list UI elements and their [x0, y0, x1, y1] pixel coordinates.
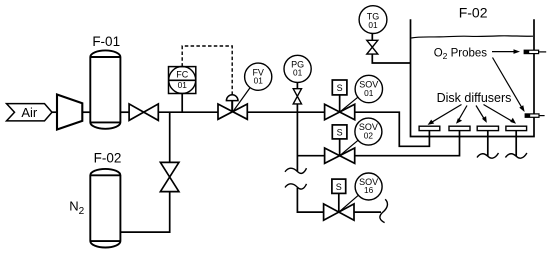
svg-text:F-01: F-01 [92, 34, 120, 49]
svg-text:S: S [337, 128, 343, 138]
svg-text:16: 16 [364, 185, 374, 195]
valve V2 (N2 line) [160, 162, 179, 191]
svg-text:N2: N2 [69, 198, 84, 217]
valve SOV16 [324, 204, 354, 220]
blower B1 [57, 95, 82, 130]
svg-text:01: 01 [254, 75, 264, 85]
svg-text:O2 Probes: O2 Probes [434, 47, 488, 61]
vessel F-01 [90, 34, 120, 129]
wire V4 to tank [372, 54, 410, 63]
valve V3 (gauge isolation) [293, 89, 301, 104]
instrument SOV 16 [340, 173, 383, 212]
off-page connector "Air" [7, 104, 53, 121]
pipe break tilde (D3) [477, 153, 499, 158]
svg-text:F-02: F-02 [94, 151, 122, 166]
valve SOV01 [325, 104, 355, 119]
svg-text:F-02: F-02 [459, 5, 488, 21]
wire header down [296, 112, 298, 171]
arrow to diffuser D4 [484, 105, 517, 124]
svg-text:01: 01 [293, 68, 303, 78]
water surface [411, 36, 533, 38]
valve V1 [129, 104, 158, 121]
wire SOV16 out [354, 211, 381, 213]
pipe break arc (SOV16 out) [380, 199, 388, 222]
wire SOV01 out to diffuser D1 [355, 112, 430, 146]
wire N2 branch down [169, 112, 171, 162]
wire blower to F-01 [82, 111, 90, 113]
controller FC 01 [169, 67, 196, 94]
wire header resume to SOV16 branch [297, 188, 323, 212]
wire valve V2 to vessel F-02 [120, 192, 169, 233]
O2 probe P1 [524, 50, 546, 53]
svg-text:01: 01 [368, 20, 378, 30]
svg-text:01: 01 [364, 88, 374, 98]
wire main line FV to SOV01 [247, 111, 324, 113]
arrow to diffuser D2 [456, 106, 467, 124]
solenoid S1 [332, 80, 347, 112]
wire TG stem [371, 33, 373, 40]
arrow to diffuser D3 [476, 106, 487, 123]
solenoid S2 [332, 125, 347, 156]
instrument SOV 01 [340, 75, 382, 112]
wire F-01 to valve V1 [120, 111, 129, 113]
wire PG stem [296, 104, 298, 112]
vessel F-02 (N2) [90, 151, 121, 248]
svg-text:S: S [336, 182, 342, 192]
O2 probe P2 [525, 114, 544, 117]
wire diffuser D3 stem [487, 131, 489, 156]
instrument SOV 02 [340, 118, 382, 155]
arrow to probe P2 [493, 58, 525, 113]
svg-text:FC: FC [176, 70, 188, 80]
control valve FV [218, 95, 247, 120]
wire FC stem [181, 94, 183, 113]
diffuser D2 [449, 126, 470, 130]
pipe break tilde (header lower) [285, 184, 307, 189]
diffuser D4 [506, 126, 527, 130]
wire SOV02 out to diffuser D2 [355, 131, 460, 156]
svg-text:Air: Air [21, 105, 38, 120]
valve SOV02 [325, 148, 355, 163]
arrow to probe P1 [492, 49, 520, 54]
arrow to diffuser D1 [428, 105, 462, 125]
valve V4 (TG isolation) [367, 40, 378, 54]
svg-text:01: 01 [178, 80, 188, 90]
diffuser D3 [477, 126, 498, 130]
svg-text:S: S [337, 83, 343, 93]
diffuser D1 [419, 126, 440, 130]
instrument FV 01 [233, 63, 272, 111]
wire main line V1 to FV [158, 111, 218, 113]
instrument TG 01 [359, 6, 387, 34]
tank F-02 [411, 5, 535, 137]
wire SOV02 branch [297, 155, 324, 157]
solenoid S3 [332, 179, 346, 212]
svg-text:02: 02 [364, 130, 374, 140]
instrument PG 01 [284, 55, 311, 82]
pipe break tilde (header upper) [285, 168, 307, 173]
wire diffuser D4 stem [515, 131, 517, 156]
wire V3 to PG [296, 82, 298, 88]
signal line FC to FV (dashed) [182, 46, 232, 95]
pipe break tilde (D4) [505, 153, 527, 158]
svg-text:Disk diffusers: Disk diffusers [437, 91, 512, 105]
wire air to blower [52, 111, 57, 113]
